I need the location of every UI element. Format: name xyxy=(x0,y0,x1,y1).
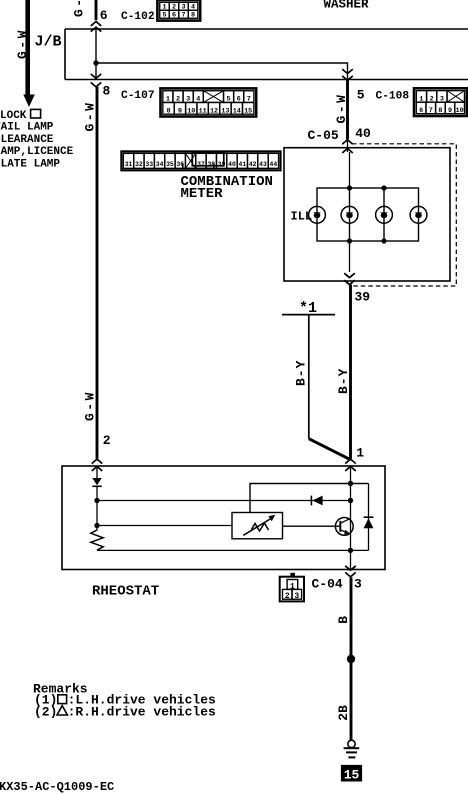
svg-text:8: 8 xyxy=(166,107,170,115)
ground symbol xyxy=(348,740,355,747)
connector C-04 icon xyxy=(290,573,295,577)
svg-text:9: 9 xyxy=(178,107,182,115)
svg-text:43: 43 xyxy=(259,161,267,168)
svg-text:C-102: C-102 xyxy=(121,11,155,23)
svg-text:C-05: C-05 xyxy=(308,128,339,143)
svg-text:C-108: C-108 xyxy=(376,91,410,103)
wire: J/B bus to pin 5 (C-108) xyxy=(96,63,348,80)
wire: optional B-Y branch xyxy=(308,315,310,439)
svg-text:15: 15 xyxy=(244,107,252,115)
svg-text:39: 39 xyxy=(355,290,371,305)
pin highlight box (pins 37-39) xyxy=(192,153,224,166)
svg-text:15: 15 xyxy=(344,767,360,782)
connector C-102 pin table xyxy=(157,0,200,21)
combination meter box (solid) xyxy=(284,148,450,281)
pin 6 arrow into J/B xyxy=(91,22,102,26)
svg-text:37: 37 xyxy=(197,161,205,168)
svg-text:3: 3 xyxy=(294,592,299,601)
pin 3 arrow out of rheostat xyxy=(345,566,356,570)
wire: B to ground xyxy=(350,578,353,742)
svg-text:5: 5 xyxy=(357,88,365,103)
svg-text:34: 34 xyxy=(156,161,164,168)
svg-text:LOCK: LOCK xyxy=(0,110,27,122)
wire: diagonal join to main xyxy=(309,439,351,460)
wire: main vertical through rheostat xyxy=(350,468,352,570)
svg-text:B-Y: B-Y xyxy=(293,360,308,386)
option terminal bar *1 xyxy=(282,314,335,316)
svg-text:13: 13 xyxy=(221,107,229,115)
svg-text::R.H.drive vehicles: :R.H.drive vehicles xyxy=(68,704,216,719)
svg-text:10: 10 xyxy=(187,107,195,115)
junction block J/B box xyxy=(65,28,468,30)
svg-text:2: 2 xyxy=(285,592,290,601)
svg-text:J/B: J/B xyxy=(35,34,62,51)
svg-text:12: 12 xyxy=(210,107,218,115)
meter connector pin table 31-44 xyxy=(121,151,280,170)
svg-text:G-W: G-W xyxy=(83,390,98,421)
svg-text:6: 6 xyxy=(419,107,423,115)
wire: pin 40 down to lamp bus xyxy=(349,152,351,188)
junction node in J/B xyxy=(93,60,98,65)
svg-text:41: 41 xyxy=(238,161,246,168)
svg-text:7: 7 xyxy=(429,107,433,115)
svg-text:31: 31 xyxy=(125,161,133,168)
svg-text:RHEOSTAT: RHEOSTAT xyxy=(92,584,159,600)
wire: top inner line xyxy=(250,484,369,514)
wire: G-W from C-102 pin 6 into J/B xyxy=(95,0,98,20)
option square symbol (L.H. drive) xyxy=(31,109,41,118)
wire: tail lamp feed G-W (thick, to lamps) xyxy=(25,0,30,96)
svg-text:10: 10 xyxy=(456,107,464,115)
svg-text:3: 3 xyxy=(354,577,362,592)
svg-text:14: 14 xyxy=(233,107,241,115)
illumination lamp 1 xyxy=(309,206,326,223)
svg-text:42: 42 xyxy=(249,161,257,168)
wire: VR1 to transistor base xyxy=(283,525,341,527)
svg-text:8: 8 xyxy=(191,11,195,19)
transistor Q1 xyxy=(335,518,353,536)
svg-text:7: 7 xyxy=(182,11,186,19)
wire: to variable resistor xyxy=(97,525,232,527)
resistor R1 (zigzag to bottom rail) xyxy=(91,530,103,550)
svg-text:9: 9 xyxy=(448,107,452,115)
wire: B-Y from meter pin 39 to rheostat pin 1 xyxy=(349,285,352,459)
diode D3 (upward, across output) xyxy=(368,484,370,551)
svg-text:35: 35 xyxy=(166,161,174,168)
diode D1 (downward) xyxy=(92,478,101,485)
svg-text:40: 40 xyxy=(228,161,236,168)
svg-text:WASHER: WASHER xyxy=(324,0,370,12)
lamp branch wires xyxy=(349,188,351,241)
wire: pin 2 branch inside rheostat xyxy=(96,468,98,478)
svg-text:PLATE LAMP: PLATE LAMP xyxy=(0,158,60,170)
svg-text:LAMP,LICENCE: LAMP,LICENCE xyxy=(0,146,74,158)
page reference 15 (black box) xyxy=(341,765,362,782)
junction node xyxy=(94,523,99,528)
combination meter dashed outline (meter case) xyxy=(352,144,456,286)
svg-text:8: 8 xyxy=(103,84,111,99)
pin 5 arrow out of J/B xyxy=(342,69,353,73)
junction node (splice) xyxy=(347,655,355,663)
junction dots on lamp bus xyxy=(347,185,352,190)
pin 39 arrow out of meter xyxy=(344,273,355,277)
svg-text:1: 1 xyxy=(356,446,364,461)
svg-text:6: 6 xyxy=(172,11,176,19)
svg-text:METER: METER xyxy=(181,186,224,202)
svg-text:B: B xyxy=(336,616,351,624)
svg-text:TAIL LAMP: TAIL LAMP xyxy=(0,122,54,134)
wire: bottom rail xyxy=(97,549,369,551)
svg-text:KX35-AC-Q1009-EC: KX35-AC-Q1009-EC xyxy=(0,780,114,794)
junction nodes on main vertical xyxy=(348,481,353,486)
svg-text:33: 33 xyxy=(145,161,153,168)
svg-text:2: 2 xyxy=(103,433,111,448)
wire: G-W from J/B pin 8 to rheostat pin 2 xyxy=(96,87,99,459)
variable resistor VR1 box xyxy=(232,513,283,539)
wire: G-W from C-108 to combination meter C-05 pin 40 xyxy=(346,80,349,139)
svg-text:5: 5 xyxy=(162,11,166,19)
svg-text:G-W: G-W xyxy=(334,93,349,124)
wire inside J/B (vertical) xyxy=(95,29,97,63)
pin 8 arrow out of J/B xyxy=(91,74,102,78)
wire from dot down to pin 8 xyxy=(95,63,97,80)
svg-text:11: 11 xyxy=(199,107,207,115)
lamp bus rectangle xyxy=(317,188,419,241)
svg-text:6: 6 xyxy=(100,8,108,23)
wire: upper cross line with diode D2 xyxy=(97,500,351,502)
svg-text:C-04: C-04 xyxy=(312,577,343,592)
wire: lamp bus to pin 39 xyxy=(349,241,351,272)
svg-text:B-Y: B-Y xyxy=(336,368,351,394)
connector C-107 pin table xyxy=(161,88,257,116)
diode D2 (leftward) xyxy=(312,496,322,506)
variable resistor zigzag+arrow xyxy=(252,523,269,531)
svg-text:G-W: G-W xyxy=(72,0,87,17)
svg-text:44: 44 xyxy=(270,161,278,168)
svg-text:40: 40 xyxy=(355,126,371,141)
junction node xyxy=(94,498,99,503)
svg-text:2B: 2B xyxy=(336,705,351,721)
svg-text:32: 32 xyxy=(135,161,143,168)
pin 40 arrow into meter xyxy=(342,140,353,144)
svg-text:G-W: G-W xyxy=(83,101,98,132)
pin 2 arrow into rheostat xyxy=(92,459,103,463)
pin highlight tray (below pins) xyxy=(183,164,214,169)
svg-text:(2): (2) xyxy=(34,704,57,719)
svg-text:G-W: G-W xyxy=(15,28,30,59)
pin 1 arrow into rheostat xyxy=(345,459,356,463)
svg-text:CLEARANCE: CLEARANCE xyxy=(0,134,54,146)
connector C-108 pin table xyxy=(414,88,467,116)
svg-text:8: 8 xyxy=(438,107,442,115)
svg-text:C-107: C-107 xyxy=(121,90,155,102)
rheostat box xyxy=(62,466,385,570)
